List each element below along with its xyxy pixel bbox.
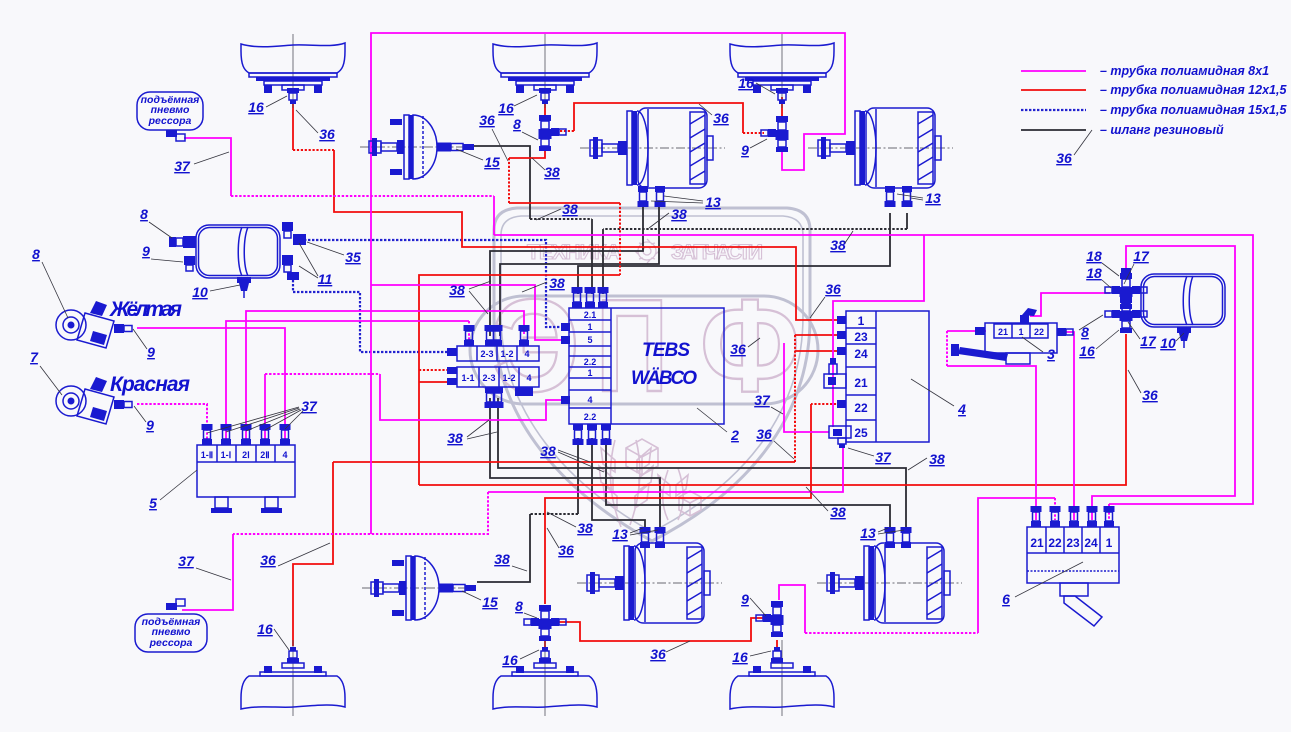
svg-text:36: 36 [713, 110, 729, 126]
svg-text:38: 38 [929, 451, 945, 467]
black hose: axle manifold bottom port b to rear-right chamber 13 [498, 398, 906, 531]
svg-text:4: 4 [587, 395, 592, 405]
svg-text:8: 8 [32, 246, 40, 262]
svg-text:рессора: рессора [148, 115, 192, 127]
brake chamber 15 rear-left [362, 556, 476, 620]
svg-text:25: 25 [854, 426, 868, 440]
air bellows rear-right [730, 640, 834, 716]
svg-text:Жёлтая: Жёлтая [109, 298, 182, 321]
tee 9 above rear-right bellows [756, 601, 784, 637]
svg-text:24: 24 [854, 347, 868, 361]
black hose: front-right chamber 13 to TEBS top port 1 [578, 213, 890, 294]
fitting 16 of rear-right bellows [771, 647, 783, 663]
red pipe 12x1.5: tee 8 down-left to supply riser and valve block 4 ports 23/24 [509, 147, 545, 158]
tee 9 under front-right bellows [761, 116, 789, 152]
magenta pipe 8x1: main lift control line across to lift valve 6 port 1 [494, 235, 1253, 504]
svg-text:2.2: 2.2 [584, 357, 597, 367]
svg-text:21: 21 [1030, 536, 1044, 550]
brake chamber 15 front-left [360, 115, 474, 179]
fitting 16 of rear-left bellows [287, 647, 299, 663]
blue pipe 15x1.5: left receiver to axle manifold [293, 280, 450, 352]
label 13 front-right chamber [897, 190, 941, 206]
tee 8 above rear-center bellows [524, 605, 566, 641]
label 38 right hose [830, 231, 853, 253]
svg-text:3: 3 [1047, 346, 1055, 362]
label 10 left receiver [192, 284, 240, 300]
label 38 hose b1 [536, 201, 578, 220]
svg-text:9: 9 [147, 344, 155, 360]
label 8 coupling yellow [32, 246, 68, 318]
svg-text:38: 38 [830, 504, 846, 520]
air bellows rear-center [493, 640, 597, 716]
label 6 lift valve [1002, 562, 1083, 607]
svg-text:2Ⅰ: 2Ⅰ [242, 450, 250, 460]
label 36 right receiver line [1128, 370, 1158, 403]
fitting 16 of front-left bellows [287, 88, 299, 104]
label 36 right magenta riser [810, 281, 841, 318]
label 13 front-center chamber [651, 194, 721, 210]
svg-text:37: 37 [174, 158, 191, 174]
label 36 cross line [699, 104, 729, 126]
svg-text:36: 36 [319, 126, 335, 142]
label 9 left receiver [142, 243, 183, 262]
lift valve 6 top fittings [1031, 506, 1042, 527]
svg-text:38: 38 [830, 237, 846, 253]
magenta pipe 8x1: hand valve 3 port 22 to lift valve 6 port 23 [1059, 332, 1074, 520]
label 4 valve block [911, 379, 966, 417]
label 16 front-right bellows [738, 75, 775, 94]
label 2 TEBS [697, 408, 739, 443]
svg-text:16: 16 [738, 75, 754, 91]
magenta pipe 8x1: rear-right tee to lift valve 6 port 22 [779, 585, 805, 633]
svg-text:2.1: 2.1 [584, 310, 597, 320]
svg-text:18: 18 [1086, 248, 1102, 264]
svg-text:22: 22 [1034, 327, 1044, 337]
label 36 center riser [479, 112, 508, 161]
svg-text:38: 38 [562, 201, 578, 217]
label 38 above axle manifold [522, 275, 565, 292]
magenta pipe 8x1: hand valve 3 feed from right receiver fitting [1030, 293, 1110, 316]
watermark capsule around letters [470, 296, 818, 404]
svg-text:8: 8 [515, 598, 523, 614]
air receiver left [196, 225, 280, 278]
fitting at valve block 4 port 21 [824, 358, 846, 388]
svg-text:36: 36 [650, 646, 666, 662]
black hose: front-right chamber 13 to TEBS top port 3 [906, 213, 908, 229]
fitting 16 of front-center bellows [539, 88, 551, 104]
fitting 16 of front-right bellows [776, 88, 788, 104]
TEBS bottom port fittings [573, 424, 584, 445]
label 38 far right hose [908, 451, 945, 470]
magenta pipe 8x1: branch down to TEBS port 5 [371, 285, 563, 340]
air bellows front-right [730, 34, 834, 108]
magenta pipe 8x1: valve block 4 port 25 down to rear lift bellows valve [488, 446, 843, 492]
svg-text:5: 5 [587, 335, 592, 345]
label 16 rear-left bellows [257, 621, 289, 650]
lift axle control valve 6 [1027, 527, 1119, 626]
svg-text:36: 36 [756, 426, 772, 442]
label 16 rear-center bellows [502, 650, 539, 668]
axle manifold top fittings [464, 325, 475, 346]
svg-text:38: 38 [577, 520, 593, 536]
svg-text:35: 35 [345, 249, 361, 265]
svg-text:38: 38 [540, 443, 556, 459]
svg-text:1: 1 [1018, 327, 1023, 337]
axle manifold valve 1-1 [447, 346, 539, 396]
svg-text:36: 36 [730, 341, 746, 357]
svg-text:TEBS: TEBS [642, 340, 690, 361]
svg-text:11: 11 [318, 271, 333, 287]
air bellows rear-left [241, 640, 345, 716]
svg-text:1: 1 [1106, 536, 1113, 550]
drain valve 10 of right receiver [1177, 327, 1191, 348]
label 38 rear hose junction [547, 512, 593, 536]
label 8 left receiver [140, 206, 172, 238]
svg-text:38: 38 [671, 206, 687, 222]
elbow 11 upper on left receiver [282, 222, 306, 245]
svg-text:2-3: 2-3 [482, 373, 495, 383]
legend line 12x1.5 [1021, 89, 1086, 91]
svg-text:38: 38 [544, 164, 560, 180]
svg-text:4: 4 [526, 373, 531, 383]
TEBS WABCO modulator 2 [569, 308, 724, 424]
spring brake chamber 13 front-right [808, 108, 953, 188]
svg-text:WÄBCO: WÄBCO [631, 368, 697, 389]
label 38 front hose [532, 158, 560, 180]
black hose: TEBS bottom port 1 to rear-left chamber 15 [577, 438, 579, 514]
manifold 5 top fittings [202, 424, 213, 445]
manifold block 5 [197, 445, 295, 513]
red pipe: rear-right tee 9 down to bellows fitting [776, 640, 778, 648]
label 13 rear-center chamber [612, 526, 658, 542]
label 36 front-left line [296, 110, 335, 142]
label 10 right receiver [1160, 333, 1184, 351]
callout bubble front lift bellows [137, 92, 203, 141]
svg-text:21: 21 [854, 376, 868, 390]
svg-text:13: 13 [925, 190, 941, 206]
svg-text:ЗАПЧАСТИ: ЗАПЧАСТИ [671, 241, 763, 264]
svg-text:38: 38 [449, 282, 465, 298]
coupling head yellow [56, 301, 132, 348]
ports of chamber 13 front-center [638, 186, 649, 207]
label 36 top right red [1056, 130, 1092, 166]
svg-text:36: 36 [825, 281, 841, 297]
legend line 8x1 [1021, 70, 1086, 72]
black hose: TEBS bottom port 3 to rear-right chamber 13 [606, 438, 890, 531]
svg-text:7: 7 [30, 349, 39, 365]
watermark shield outer outline [494, 208, 810, 541]
label 11 left receiver elbows [299, 243, 332, 287]
svg-text:2Ⅱ: 2Ⅱ [260, 450, 269, 460]
spring brake chamber 13 rear-center [577, 543, 722, 623]
valve block 4 [837, 311, 929, 442]
svg-text:37: 37 [875, 449, 892, 465]
label 38 below TEBS [540, 443, 604, 472]
svg-text:8: 8 [513, 116, 521, 132]
svg-text:– трубка полиамидная 12х1,5: – трубка полиамидная 12х1,5 [1100, 83, 1287, 97]
svg-text:36: 36 [1056, 150, 1072, 166]
label 17 upper fitting [1124, 248, 1150, 284]
label 38 below axle manifold [447, 420, 497, 446]
coupling head red [56, 377, 132, 424]
cross fitting 17/18 upper at right receiver [1105, 268, 1147, 309]
label 16 rear-right bellows [732, 649, 771, 665]
hand brake valve 3 [951, 308, 1073, 364]
air bellows front-left [241, 34, 345, 108]
label 15 front chamber [456, 149, 500, 170]
axle manifold bottom fittings [485, 387, 496, 408]
svg-text:1: 1 [587, 368, 592, 378]
fitting 8 on left receiver [169, 236, 196, 248]
ports of chamber 13 rear-right [885, 527, 896, 548]
black hose: front-left chamber 15 to TEBS top port 2 [474, 146, 530, 219]
label 38 rear right hose [806, 487, 846, 520]
svg-text:рессора: рессора [149, 637, 193, 649]
legend line 15x1.5 [1021, 109, 1086, 111]
label 37 manifold 5 lines [207, 398, 318, 433]
svg-text:38: 38 [447, 430, 463, 446]
spring brake chamber 13 front-center [580, 108, 725, 188]
ports of chamber 13 rear-center [640, 527, 651, 548]
svg-text:2.2: 2.2 [584, 412, 597, 422]
svg-text:36: 36 [479, 112, 495, 128]
svg-text:23: 23 [1066, 536, 1080, 550]
svg-text:17: 17 [1140, 333, 1157, 349]
tee 8 under front-center bellows [539, 115, 567, 151]
elbow 9 on left receiver [184, 256, 195, 271]
svg-text:8: 8 [140, 206, 148, 222]
svg-text:9: 9 [741, 591, 749, 607]
label 36 rear red run [650, 641, 690, 662]
magenta pipe 8x1: manifold 5 to axle manifold top fitting [226, 321, 469, 440]
red pipe 12x1.5: front-left bellows line to valve block 4 port 1 [292, 101, 294, 150]
svg-text:23: 23 [854, 330, 868, 344]
magenta pipe 8x1: big supply loop of parking line [371, 33, 845, 534]
magenta pipe 8x1: coupling head yellow to manifold 5 [137, 328, 285, 440]
blue pipe 15x1.5: left receiver to TEBS port 1 [304, 240, 563, 327]
svg-text:15: 15 [484, 154, 500, 170]
svg-text:16: 16 [498, 100, 514, 116]
label 38 hose b3 [649, 206, 687, 228]
watermark gear [635, 239, 659, 263]
watermark wheat emblem [599, 439, 701, 527]
svg-text:17: 17 [1133, 248, 1150, 264]
black hose: axle manifold bottom port a to rear-center chamber 13 [490, 398, 660, 531]
label 38 rear chamber hose [494, 551, 527, 571]
label 8 right fitting [1079, 315, 1103, 340]
svg-text:22: 22 [854, 401, 868, 415]
svg-text:4: 4 [524, 349, 529, 359]
magenta pipe 8x1: branch from lift line to valve block 4 port 25 [833, 235, 924, 427]
label 38 left of axle manifold [449, 281, 491, 314]
svg-text:37: 37 [178, 553, 195, 569]
label 9 coupling red [134, 406, 154, 433]
svg-text:36: 36 [558, 542, 574, 558]
label 37 rear lift line [178, 553, 231, 580]
svg-text:16: 16 [248, 99, 264, 115]
svg-text:1: 1 [858, 314, 865, 328]
TEBS left port stubs [561, 323, 570, 404]
ports of chamber 13 front-right [885, 186, 896, 207]
red pipe: rear-center tee 8 down to bellows fitting [544, 640, 546, 648]
label 16 front-left bellows [248, 96, 287, 115]
svg-text:6: 6 [1002, 591, 1010, 607]
air receiver right [1141, 274, 1225, 327]
label 9 rear tee right [741, 591, 766, 616]
red pipe 12x1.5: branch to rear-left bellows [293, 462, 333, 646]
drain valve 10 of left receiver [237, 277, 251, 298]
label 35 left receiver [307, 242, 361, 265]
label 36 below TEBS right [756, 426, 794, 459]
red pipe: front-right bellows stem into tee 9 [781, 97, 783, 120]
label 36 rear red riser [547, 528, 574, 558]
svg-text:5: 5 [149, 495, 157, 511]
red pipe 12x1.5: front-center bellows tee to front-right bellows tee [544, 101, 546, 117]
svg-text:4: 4 [957, 401, 966, 417]
elbow at valve block 4 port 25 [829, 426, 851, 448]
svg-text:– шланг резиновый: – шланг резиновый [1100, 123, 1224, 137]
air bellows front-center [493, 34, 597, 108]
svg-text:13: 13 [612, 526, 628, 542]
label 8 rear tee [515, 598, 537, 618]
svg-text:1-1: 1-1 [461, 373, 474, 383]
svg-text:1-Ⅰ: 1-Ⅰ [221, 450, 232, 460]
magenta pipe 8x1: manifold 5 to TEBS port 4 [264, 374, 266, 440]
label 8 front tee [513, 116, 538, 140]
svg-text:18: 18 [1086, 265, 1102, 281]
svg-text:38: 38 [549, 275, 565, 291]
label 7 coupling red [30, 349, 62, 395]
svg-text:9: 9 [741, 142, 749, 158]
label 36 TEBS right [730, 338, 760, 357]
svg-text:16: 16 [732, 649, 748, 665]
label 13 rear-right chamber [860, 525, 904, 541]
svg-text:21: 21 [998, 327, 1008, 337]
svg-text:9: 9 [142, 243, 150, 259]
svg-text:37: 37 [301, 398, 318, 414]
svg-text:1-2: 1-2 [502, 373, 515, 383]
svg-text:– трубка полиамидная 15х1,5: – трубка полиамидная 15х1,5 [1100, 103, 1287, 117]
label 17 lower fitting [1128, 322, 1157, 349]
magenta pipe 8x1: hand valve 3 port 21 to lift valve 6 port 21 [947, 330, 986, 332]
label 36 rear-left red [260, 543, 330, 568]
svg-text:16: 16 [502, 652, 518, 668]
cross fitting 16/17 lower at right receiver [1105, 297, 1147, 333]
black hose: TEBS bottom port 2 to rear-center chamber 13 [592, 438, 645, 531]
magenta pipe 8x1: right receiver top fitting to lift valve 6 port 24 [1092, 246, 1235, 520]
svg-text:16: 16 [1079, 343, 1095, 359]
legend line rubber hose [1021, 129, 1086, 131]
label 16 right fitting [1079, 330, 1119, 359]
svg-text:– трубка полиамидная 8х1: – трубка полиамидная 8х1 [1100, 64, 1269, 78]
svg-text:15: 15 [482, 594, 498, 610]
svg-text:16: 16 [257, 621, 273, 637]
magenta pipe 8x1: coupling head red to manifold 5 [137, 404, 207, 440]
svg-text:24: 24 [1084, 536, 1098, 550]
svg-text:2-3: 2-3 [480, 349, 493, 359]
label 37 front lift line [174, 152, 229, 174]
svg-text:36: 36 [260, 552, 276, 568]
svg-text:2: 2 [730, 427, 739, 443]
svg-text:13: 13 [860, 525, 876, 541]
label 9 front tee right [741, 139, 767, 158]
svg-text:1-2: 1-2 [500, 349, 513, 359]
label 15 rear chamber [462, 591, 498, 610]
red pipe 12x1.5: valve block 4 port 22 to rear bellows tees [811, 403, 840, 405]
svg-text:1-Ⅱ: 1-Ⅱ [201, 450, 213, 460]
elbow 11 lower on left receiver [282, 255, 299, 280]
svg-text:1: 1 [587, 322, 592, 332]
fitting 16 of rear-center bellows [539, 647, 551, 663]
label 18 fittings [1086, 248, 1119, 276]
svg-text:Красная: Красная [110, 373, 190, 396]
magenta pipe 8x1: stub into valve block 4 port 25 elbow [784, 343, 829, 432]
label 37 TEBS lift stub [754, 392, 783, 414]
svg-text:4: 4 [282, 450, 287, 460]
svg-text:13: 13 [705, 194, 721, 210]
callout bubble rear lift bellows [135, 599, 207, 652]
label 37 rear lift hose [848, 448, 892, 465]
spring brake chamber 13 rear-right [817, 543, 962, 623]
magenta pipe 8x1: front lift bellows valve to lift control line [184, 138, 231, 196]
svg-text:36: 36 [1142, 387, 1158, 403]
svg-text:37: 37 [754, 392, 771, 408]
magenta pipe 8x1: manifold 5 to axle manifold top fitting 2 [246, 311, 524, 440]
label 16 front-center bellows [498, 95, 537, 116]
black hose: front-center chamber 13 to axle manifold port a [490, 206, 643, 336]
TEBS top port fittings [572, 287, 583, 308]
svg-text:22: 22 [1048, 536, 1062, 550]
svg-text:38: 38 [494, 551, 510, 567]
svg-text:9: 9 [146, 417, 154, 433]
svg-text:10: 10 [192, 284, 208, 300]
red pipe 12x1.5: long supply line to right receiver [419, 334, 1126, 485]
svg-text:ТЕХНИКА: ТЕХНИКА [527, 241, 621, 264]
black hose: front-center chamber 13 to axle manifold port b [500, 206, 659, 336]
label 3 hand valve [1022, 337, 1055, 362]
label 5 manifold [149, 470, 197, 511]
label 9 coupling yellow [133, 329, 155, 360]
svg-text:10: 10 [1160, 335, 1176, 351]
